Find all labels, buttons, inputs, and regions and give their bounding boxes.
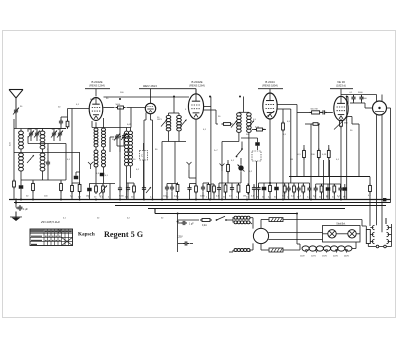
coil transformer secondary — [234, 249, 250, 252]
wire trimmer row bottom — [28, 129, 66, 144]
wire ragc2 — [72, 183, 80, 200]
wire bus 4 — [148, 208, 345, 210]
svg-text:Regent 5 G: Regent 5 G — [104, 230, 144, 239]
wire r328 — [328, 145, 330, 177]
wire connector wires — [362, 218, 392, 247]
trimmer capacitor antenna — [14, 108, 18, 114]
trimmer capacitor band 2 — [35, 131, 39, 137]
wire lamp stubs — [323, 233, 361, 235]
grid stub Y left — [88, 162, 93, 169]
wire trimmer stubs — [31, 129, 60, 142]
wire label underline T1 — [85, 89, 110, 97]
wire rbf — [133, 183, 135, 200]
resistor detector load — [222, 123, 233, 126]
transformer winding hatched top — [269, 218, 283, 222]
capacitor mains 1uF — [181, 221, 187, 225]
resistor E4 — [302, 184, 305, 194]
potentiometer wave band switch — [27, 155, 34, 163]
capacitor grid T3 — [187, 186, 191, 192]
wire r341 leads — [341, 117, 359, 200]
resistor bias — [213, 184, 216, 194]
svg-text:MΩ: MΩ — [344, 123, 348, 125]
wire row E top — [285, 182, 310, 184]
svg-text:B 2042E: B 2042E — [191, 80, 202, 84]
mains switch — [216, 216, 227, 221]
speaker connector bracket — [366, 230, 370, 244]
wire bus 3 — [115, 205, 386, 207]
wire cd3 — [253, 184, 255, 200]
trimmer capacitor band 1 — [29, 131, 33, 137]
wire sw lead — [241, 142, 243, 150]
wire pot wire — [89, 184, 115, 200]
electrolytic F — [326, 187, 331, 191]
svg-text:B 2042E: B 2042E — [91, 80, 102, 84]
wire ecap76 stub — [76, 172, 80, 176]
electrolytic cathode — [87, 188, 92, 192]
capacitor AVC line — [142, 186, 146, 192]
wire cd2 — [231, 183, 233, 200]
wire res33 leads — [32, 180, 34, 200]
wire rE4 — [302, 183, 304, 200]
capacitor E1 — [287, 186, 291, 192]
wire r45k leads — [252, 129, 266, 131]
trimmer capacitor band 4 — [58, 131, 62, 137]
svg-text:2M: 2M — [290, 159, 293, 161]
resistor AF coupling — [227, 163, 230, 174]
wire cE1 — [288, 183, 290, 200]
capacitor E5 — [307, 186, 311, 192]
resistor grid stopper — [66, 119, 69, 129]
wire right edge verticals — [390, 108, 392, 203]
wire eG — [344, 184, 346, 200]
dial lamp 2 — [348, 230, 356, 238]
wire mid-left wire — [14, 152, 80, 154]
resistor F1 — [320, 184, 323, 194]
svg-text:ZF=108,5 kHz: ZF=108,5 kHz — [40, 220, 60, 224]
resistor F3 — [333, 184, 336, 194]
coil band filter a — [125, 131, 129, 166]
svg-text:C: C — [141, 154, 143, 158]
wire rF1 — [321, 184, 323, 200]
wire cd1 — [218, 183, 220, 200]
resistor AVC — [60, 182, 63, 193]
wire T3 pins — [196, 89, 211, 200]
wire cbf — [127, 183, 135, 200]
wire left lower wire — [21, 144, 66, 181]
resistor cathode T4 — [269, 184, 272, 194]
wire cd4 — [258, 183, 260, 200]
wire trafo to lamps — [269, 233, 323, 240]
wire to transformer — [226, 217, 233, 223]
wire T2 pins — [144, 113, 153, 200]
tube T5 rectifier VE30 — [334, 96, 348, 120]
wire cap48 leads — [47, 144, 49, 181]
trimmer capacitor osc a — [115, 134, 119, 140]
wire res61 leads — [60, 180, 62, 200]
wire power row — [178, 219, 199, 221]
resistor 0,4M variable — [340, 119, 343, 129]
wire eF — [327, 184, 329, 200]
wire bus 2 — [14, 202, 391, 204]
resistor grid leak — [13, 179, 16, 189]
svg-text:0,2A: 0,2A — [202, 224, 207, 227]
wire r283 — [282, 130, 284, 200]
voltage table — [30, 229, 73, 246]
electrolytic det — [262, 187, 267, 191]
capacitor det 3 — [252, 186, 256, 192]
wire vert 370 — [369, 177, 371, 185]
trimmer arrow IFT1a — [161, 120, 167, 127]
wire eye leads — [377, 95, 391, 225]
electrolytic capacitor 50uF — [19, 185, 24, 189]
switch detector — [236, 148, 243, 157]
wire vertical 210 — [210, 97, 212, 200]
svg-text:125V: 125V — [311, 256, 316, 258]
resistor cathode — [32, 182, 35, 193]
resistor T4 screen — [282, 121, 285, 132]
wire T1 grid wire — [68, 109, 90, 184]
wire cF4 — [340, 184, 342, 200]
trimmer arrow antenna — [13, 108, 19, 115]
wire box to 318 — [317, 124, 320, 145]
capacitor E3 — [297, 186, 301, 192]
trimmer arrow — [28, 131, 34, 138]
electrolytic capacitor detector — [255, 142, 260, 146]
coil IFT2 secondary — [247, 113, 252, 133]
wire mains drop — [177, 214, 179, 253]
antenna — [9, 90, 23, 109]
trimmer arrow osc a — [114, 134, 120, 141]
coil transformer primary a — [234, 216, 250, 219]
wire r228l — [227, 160, 229, 183]
capacitor 4uF — [18, 205, 23, 211]
capacitor IF bypass 1 — [165, 185, 169, 191]
wire res79 leads — [79, 153, 81, 200]
wire T5 wires — [347, 97, 348, 200]
wire c172 — [167, 184, 177, 200]
svg-text:125V: 125V — [177, 236, 183, 239]
wire c203 — [202, 183, 204, 200]
coil oscillator cathode — [102, 150, 106, 167]
wire label underline T2 — [139, 89, 196, 104]
wire ground lead — [15, 200, 17, 208]
wire vert 311 — [305, 124, 311, 200]
wire cgT3 — [190, 184, 197, 200]
dashed box CAL — [140, 151, 148, 161]
resistor plate 5000 — [116, 106, 126, 109]
coil oscillator secondary — [40, 153, 45, 171]
fuse 0,2A — [200, 219, 212, 222]
wire osc coil joints — [42, 129, 44, 181]
wire antenna lead down — [15, 114, 17, 129]
trimmer arrow IFT2b — [248, 121, 254, 128]
wire selector feed — [297, 214, 356, 249]
coil IFT2 primary — [237, 113, 242, 133]
transformer winding hatched bottom — [269, 248, 283, 252]
svg-text:50k 1W: 50k 1W — [311, 108, 318, 110]
resistor cathode bias — [78, 183, 81, 194]
wire caps join — [350, 100, 372, 108]
svg-text:B 2044: B 2044 — [265, 80, 275, 84]
dial lamp box — [323, 226, 361, 243]
capacitor decoupling 120 — [118, 186, 122, 192]
wire rd1 — [225, 183, 227, 200]
wire rF3 — [333, 184, 335, 200]
resistor tracking — [102, 184, 105, 194]
svg-text:VE 30: VE 30 — [337, 80, 345, 84]
trimmer arrow — [57, 131, 63, 138]
wire ecap21 leads — [20, 180, 22, 200]
svg-text:(RENS 1264): (RENS 1264) — [189, 84, 205, 88]
wire main bus chassis — [9, 199, 391, 201]
ground main — [10, 212, 22, 222]
wire rE0 — [284, 183, 286, 200]
wire connector bottom — [368, 244, 391, 247]
svg-text:(1823 d): (1823 d) — [336, 84, 346, 88]
transformer circle — [253, 228, 268, 243]
connector bottom terminal 1 — [376, 245, 379, 248]
wire c167 — [166, 184, 168, 200]
wire vert 323/329 — [323, 160, 329, 200]
pot arrow small — [146, 187, 151, 193]
tube T4 AF output — [263, 93, 277, 119]
wire trafo links — [229, 218, 261, 252]
coil antenna secondary — [19, 153, 24, 171]
wire T1 plate top wire — [104, 96, 190, 98]
wire coil column joints — [20, 129, 22, 181]
capacitor det 1 — [217, 186, 221, 192]
wire T4 wires — [270, 105, 297, 184]
capacitor top right 1 — [351, 95, 355, 101]
coil oscillator grid — [94, 150, 98, 167]
speaker connector contacts — [370, 225, 391, 243]
resistor IF screen — [176, 183, 179, 194]
wire row F top — [316, 183, 341, 185]
svg-text:110V: 110V — [300, 256, 305, 258]
resistor 0,15M — [327, 149, 330, 160]
wire cap61 leads — [61, 117, 68, 129]
capacitor coupling T5 — [321, 110, 327, 114]
svg-text:(RENS 1854): (RENS 1854) — [262, 84, 278, 88]
wire osc trim leads — [110, 137, 131, 153]
capacitor mains 2 — [183, 241, 189, 245]
resistor det 1 — [224, 183, 227, 194]
wire left vertical rail — [13, 119, 15, 200]
wire top right wire — [341, 95, 377, 102]
svg-text:1 μF: 1 μF — [189, 224, 194, 226]
resistor coupling 50k — [310, 111, 322, 114]
wire vert 297 — [296, 105, 298, 177]
wire cE3 — [298, 183, 300, 200]
dial lamp 1 — [328, 230, 336, 238]
trimmer arrow IFT1b — [181, 120, 187, 127]
resistor cathode T3b — [195, 184, 198, 194]
wire res89 leads — [88, 184, 90, 200]
wire IFT1 bottoms — [162, 131, 186, 200]
wire to T5 grid — [297, 111, 333, 113]
svg-text:Skal.Bel.: Skal.Bel. — [336, 222, 346, 225]
capacitor cathode T3 — [201, 185, 205, 191]
trimmer arrow IFT2a — [231, 121, 237, 128]
wire r318 — [318, 145, 320, 177]
svg-text:220V: 220V — [333, 256, 338, 258]
trimmer arrow osc b — [121, 133, 127, 140]
resistor 4,5k — [255, 128, 265, 131]
voltage selector winding — [302, 246, 352, 251]
tube T2 REN1821 — [145, 103, 155, 113]
wire r227 wires — [203, 110, 240, 124]
coil oscillator feedback — [94, 128, 98, 147]
wire trimmer row top — [28, 128, 66, 130]
voltage selector taps — [306, 249, 348, 253]
trimmer arrow — [51, 131, 57, 138]
resistor AGC 2 — [71, 184, 74, 194]
wire rbias — [211, 184, 214, 200]
wire vertical rail 120 — [119, 108, 121, 200]
wire IFT1 top — [169, 97, 180, 116]
indicator tube circle — [373, 101, 387, 115]
wire IFT2 bottoms — [222, 132, 249, 199]
coil oscillator primary — [40, 131, 45, 149]
connector bottom terminal 2 — [384, 245, 387, 248]
wire rk4 — [269, 183, 271, 200]
wire pot leads — [240, 158, 242, 183]
resistor E2 — [293, 184, 296, 194]
wire front-end top wire — [14, 128, 66, 130]
wire ed2 — [276, 183, 278, 200]
trimmer capacitor osc b — [122, 134, 126, 140]
electrolytic 0,1uF — [100, 173, 105, 177]
resistor det 2 — [237, 183, 240, 194]
svg-text:REN 1821: REN 1821 — [143, 84, 157, 88]
electrolytic cathode T4 — [274, 187, 279, 191]
wire ecap257 — [257, 138, 259, 150]
wire mid wire right — [289, 176, 370, 178]
svg-text:4 μF: 4 μF — [23, 208, 28, 211]
svg-text:Kapsch: Kapsch — [78, 231, 95, 237]
capacitor top right 2 — [359, 95, 363, 101]
wire cm1 — [178, 222, 181, 224]
wire cF0 — [315, 184, 317, 200]
wire box leads — [241, 138, 258, 200]
wire bandfilter joints — [127, 128, 131, 200]
wire c4 stub — [16, 207, 18, 209]
wire y3 lead — [189, 170, 196, 178]
dashed box tone — [252, 151, 261, 161]
svg-text:(RENS 1264): (RENS 1264) — [89, 84, 105, 88]
arrow through tube T4 — [266, 111, 275, 117]
resistor padder — [95, 184, 98, 194]
resistor speaker field — [369, 184, 372, 194]
wire cE5 — [309, 183, 311, 200]
coil IFT1 primary — [166, 115, 171, 131]
wire det row top — [259, 182, 285, 184]
wire vert 290 — [290, 109, 292, 183]
resistor 0,1M a — [303, 149, 306, 160]
wire r304 — [303, 145, 305, 177]
capacitor F0 — [314, 186, 318, 192]
wire bus 5 — [155, 209, 297, 214]
svg-text:240V: 240V — [344, 256, 349, 258]
resistor det 3 — [247, 184, 250, 195]
trimmer capacitor band 3 — [52, 131, 56, 137]
potentiometer volume control — [238, 165, 245, 172]
capacitor det 2 — [230, 186, 234, 192]
wire label underline T4 — [258, 89, 283, 96]
wire r370b — [369, 192, 371, 227]
wire rE2 — [293, 183, 295, 200]
wire winding leads — [261, 220, 362, 251]
capacitor coupling — [59, 119, 63, 125]
junction block — [383, 198, 386, 201]
wire label underline T5 — [330, 89, 353, 96]
coil band filter b — [129, 131, 133, 166]
grid stub Y detector — [220, 164, 225, 172]
electrolytic G — [343, 187, 348, 191]
wire r208 — [203, 183, 209, 200]
wire rd2 — [219, 183, 241, 200]
wire cm2 — [178, 243, 193, 245]
resistor 0,1M b — [317, 149, 320, 160]
coil IFT1 secondary — [177, 115, 182, 131]
wire r177 — [177, 184, 179, 200]
capacitor 0,1 box — [311, 123, 320, 126]
resistor E0 — [283, 184, 286, 194]
wire cap102 leads — [102, 184, 104, 200]
coil antenna primary — [19, 131, 24, 149]
arrow on variable resistor — [334, 117, 348, 130]
capacitor padder — [46, 160, 50, 166]
coil oscillator anode — [102, 128, 106, 147]
svg-text:150V: 150V — [322, 256, 327, 258]
wire osc coils joints — [96, 147, 104, 184]
resistor bandfilter — [133, 184, 136, 194]
tube T1 mixer B2042E — [89, 98, 103, 121]
tube T3 IF amplifier — [188, 94, 203, 119]
wire IFT2 top — [239, 97, 249, 113]
capacitor IF bypass 2 — [170, 185, 174, 191]
resistor cathode T3 — [207, 183, 210, 194]
potentiometer volume left — [99, 186, 107, 195]
capacitor F4 — [338, 186, 342, 192]
trimmer arrow — [34, 131, 40, 138]
wire T1 pins down — [92, 118, 131, 128]
wire cal leads — [143, 143, 145, 200]
wire ed1 — [263, 183, 265, 200]
grid cap Y T3 — [187, 162, 192, 170]
coil transformer primary b — [234, 221, 250, 224]
capacitor det 4 — [256, 186, 260, 192]
electrolytic capacitor bypass — [74, 176, 79, 180]
capacitor bandfilter — [126, 186, 130, 192]
wire plate chain — [103, 108, 145, 128]
